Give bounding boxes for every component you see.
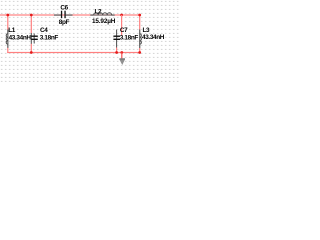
- svg-text:3.18nF: 3.18nF: [40, 34, 59, 41]
- inductor L1: [6, 15, 31, 53]
- capacitor C4: [31, 15, 59, 52]
- svg-text:15.92µH: 15.92µH: [92, 18, 116, 25]
- junction dot L3 top: [138, 14, 141, 17]
- wire bottom rail: [7, 52, 141, 53]
- svg-text:43.34nH: 43.34nH: [9, 34, 32, 41]
- junction dot C4 top: [30, 14, 33, 17]
- capacitor C7: [113, 27, 138, 53]
- wire top rail: [0, 14, 140, 15]
- junction dot C7 bottom: [115, 51, 118, 54]
- svg-text:3.18nF: 3.18nF: [120, 34, 139, 41]
- svg-text:L2: L2: [95, 9, 103, 16]
- inductor L3: [139, 15, 165, 53]
- inductor L2: [90, 9, 115, 25]
- junction dot L1 top: [6, 14, 9, 17]
- junction dot C7 top: [120, 14, 123, 17]
- svg-text:C4: C4: [40, 27, 48, 34]
- capacitor C6: [54, 4, 73, 26]
- junction dot L3 bottom: [138, 51, 141, 54]
- svg-text:43.34nH: 43.34nH: [142, 34, 165, 41]
- ground: [119, 58, 125, 65]
- wire ground stub: [121, 53, 122, 59]
- junction dot C4 bottom: [30, 51, 33, 54]
- junction dot ground: [120, 51, 123, 54]
- wire C7 branch upper: [121, 15, 122, 36]
- svg-text:L1: L1: [8, 27, 16, 34]
- svg-text:C6: C6: [60, 4, 68, 11]
- svg-text:C7: C7: [120, 27, 128, 34]
- svg-text:8pF: 8pF: [59, 19, 70, 26]
- svg-text:L3: L3: [143, 27, 151, 34]
